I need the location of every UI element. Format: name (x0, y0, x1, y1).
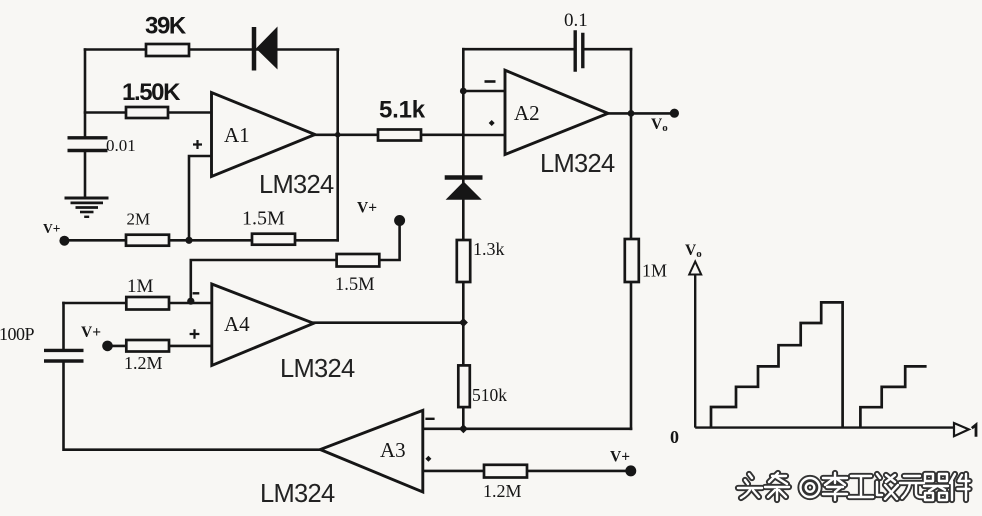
svg-text:V+: V+ (81, 324, 101, 341)
svg-text:510k: 510k (472, 385, 507, 405)
waveform staircase 1 (711, 302, 843, 427)
capacitor C 100P (44, 350, 84, 361)
ground (65, 198, 109, 217)
svg-text:1.50K: 1.50K (122, 79, 181, 106)
waveform horizontal axis (695, 426, 953, 428)
svg-text:1.5M: 1.5M (335, 275, 375, 295)
svg-text:V+: V+ (357, 200, 377, 217)
wire A2 noninverting input (463, 134, 505, 137)
junction A1 output (335, 132, 341, 138)
wire A1 feedback right vertical (336, 50, 339, 241)
node V+ bias terminal (394, 215, 405, 226)
wire A4 noninverting input (108, 345, 212, 348)
op-amp A3 (320, 410, 434, 492)
svg-text:1.3k: 1.3k (473, 239, 505, 259)
wire 100P bottom to A3 output (64, 361, 321, 450)
waveform vertical axis (694, 275, 696, 428)
node V+ A4 terminal (102, 341, 113, 352)
svg-text:0: 0 (670, 427, 679, 447)
wire ground stem (84, 151, 87, 197)
label waveform t (972, 425, 976, 437)
junction A2 inverting (460, 88, 467, 95)
resistor R 1.3k (457, 240, 470, 282)
capacitor C 0.01 (68, 138, 108, 151)
junction A4 output (459, 318, 468, 327)
svg-text:0.1: 0.1 (564, 10, 588, 31)
resistor R 1.2M A4 (126, 340, 169, 352)
wire right vertical with 1M (630, 49, 633, 429)
resistor R 510k (458, 365, 470, 407)
wire A2 inverting input (463, 90, 505, 93)
svg-text:LM324: LM324 (280, 355, 355, 383)
junction output right vertical (628, 110, 635, 117)
waveform graph (689, 262, 969, 437)
resistor R 1.5M feedback (252, 234, 295, 245)
svg-text:5.1k: 5.1k (379, 97, 426, 124)
waveform right arrow (954, 423, 969, 436)
junction A1 plus on rail (185, 237, 192, 244)
capacitor C 0.1 (575, 30, 583, 72)
node Vo terminal (670, 109, 679, 118)
wire A2 top feedback (463, 48, 631, 51)
wire A1 noninverting input (189, 156, 212, 240)
resistor R 1.50K (126, 107, 168, 118)
svg-text:1M: 1M (127, 276, 154, 297)
svg-text:1.2M: 1.2M (483, 481, 522, 501)
wire center vertical node (462, 49, 465, 429)
svg-text:1M: 1M (642, 261, 667, 281)
junction bias branch (187, 298, 194, 305)
wire A1 left vertical (84, 50, 87, 138)
resistor R 1.5M bias (337, 254, 380, 267)
svg-text:1.5M: 1.5M (242, 208, 285, 230)
svg-text:A2: A2 (514, 101, 540, 125)
resistor R 1M vertical (625, 239, 639, 282)
wire A4 output (314, 321, 464, 324)
svg-text:39K: 39K (145, 13, 187, 40)
junction 510k bottom (459, 424, 468, 433)
op-amp A4 (190, 284, 314, 366)
wire A3 noninverting input (423, 470, 631, 473)
svg-text:100P: 100P (0, 324, 35, 344)
resistor R 2M (126, 235, 169, 246)
svg-text:V+: V+ (43, 221, 60, 236)
svg-text:V+: V+ (610, 449, 630, 466)
svg-text:LM324: LM324 (260, 480, 335, 508)
op-amp A2 (485, 70, 609, 154)
svg-text:1.2M: 1.2M (124, 353, 163, 373)
wire 100P top connection (62, 303, 65, 350)
wire A1 output to A2 (315, 134, 463, 137)
resistor R 1M A4 (126, 297, 169, 310)
wire A1 top feedback (85, 48, 338, 51)
diode D1 top feedback (254, 27, 278, 71)
wire bottom A3 inverting (424, 427, 631, 430)
svg-text:LM324: LM324 (259, 171, 334, 199)
wire A4 inverting input (64, 302, 212, 305)
wire bias branch to 1.5M and V+ (191, 222, 400, 303)
node V+ left terminal (59, 236, 69, 246)
resistor R 5.1k (378, 130, 421, 141)
resistor R 1.2M A3 (484, 465, 527, 478)
node V+ A3 terminal (625, 465, 636, 476)
op-amp A1 (193, 93, 315, 177)
svg-text:A1: A1 (224, 123, 250, 147)
svg-text:A3: A3 (380, 438, 406, 462)
wire V+ bias rail (64, 239, 337, 242)
resistor R 39K (146, 44, 189, 56)
svg-text:0.01: 0.01 (106, 136, 136, 155)
svg-text:LM324: LM324 (540, 150, 615, 178)
waveform up arrow (689, 262, 701, 275)
svg-text:A4: A4 (224, 312, 250, 336)
waveform staircase 2 (860, 366, 926, 427)
diode D2 center (445, 178, 483, 200)
wire A2 output to Vo (608, 112, 674, 115)
svg-text:2M: 2M (127, 210, 151, 229)
wire A1 inverting input from 1.50K (85, 111, 212, 114)
